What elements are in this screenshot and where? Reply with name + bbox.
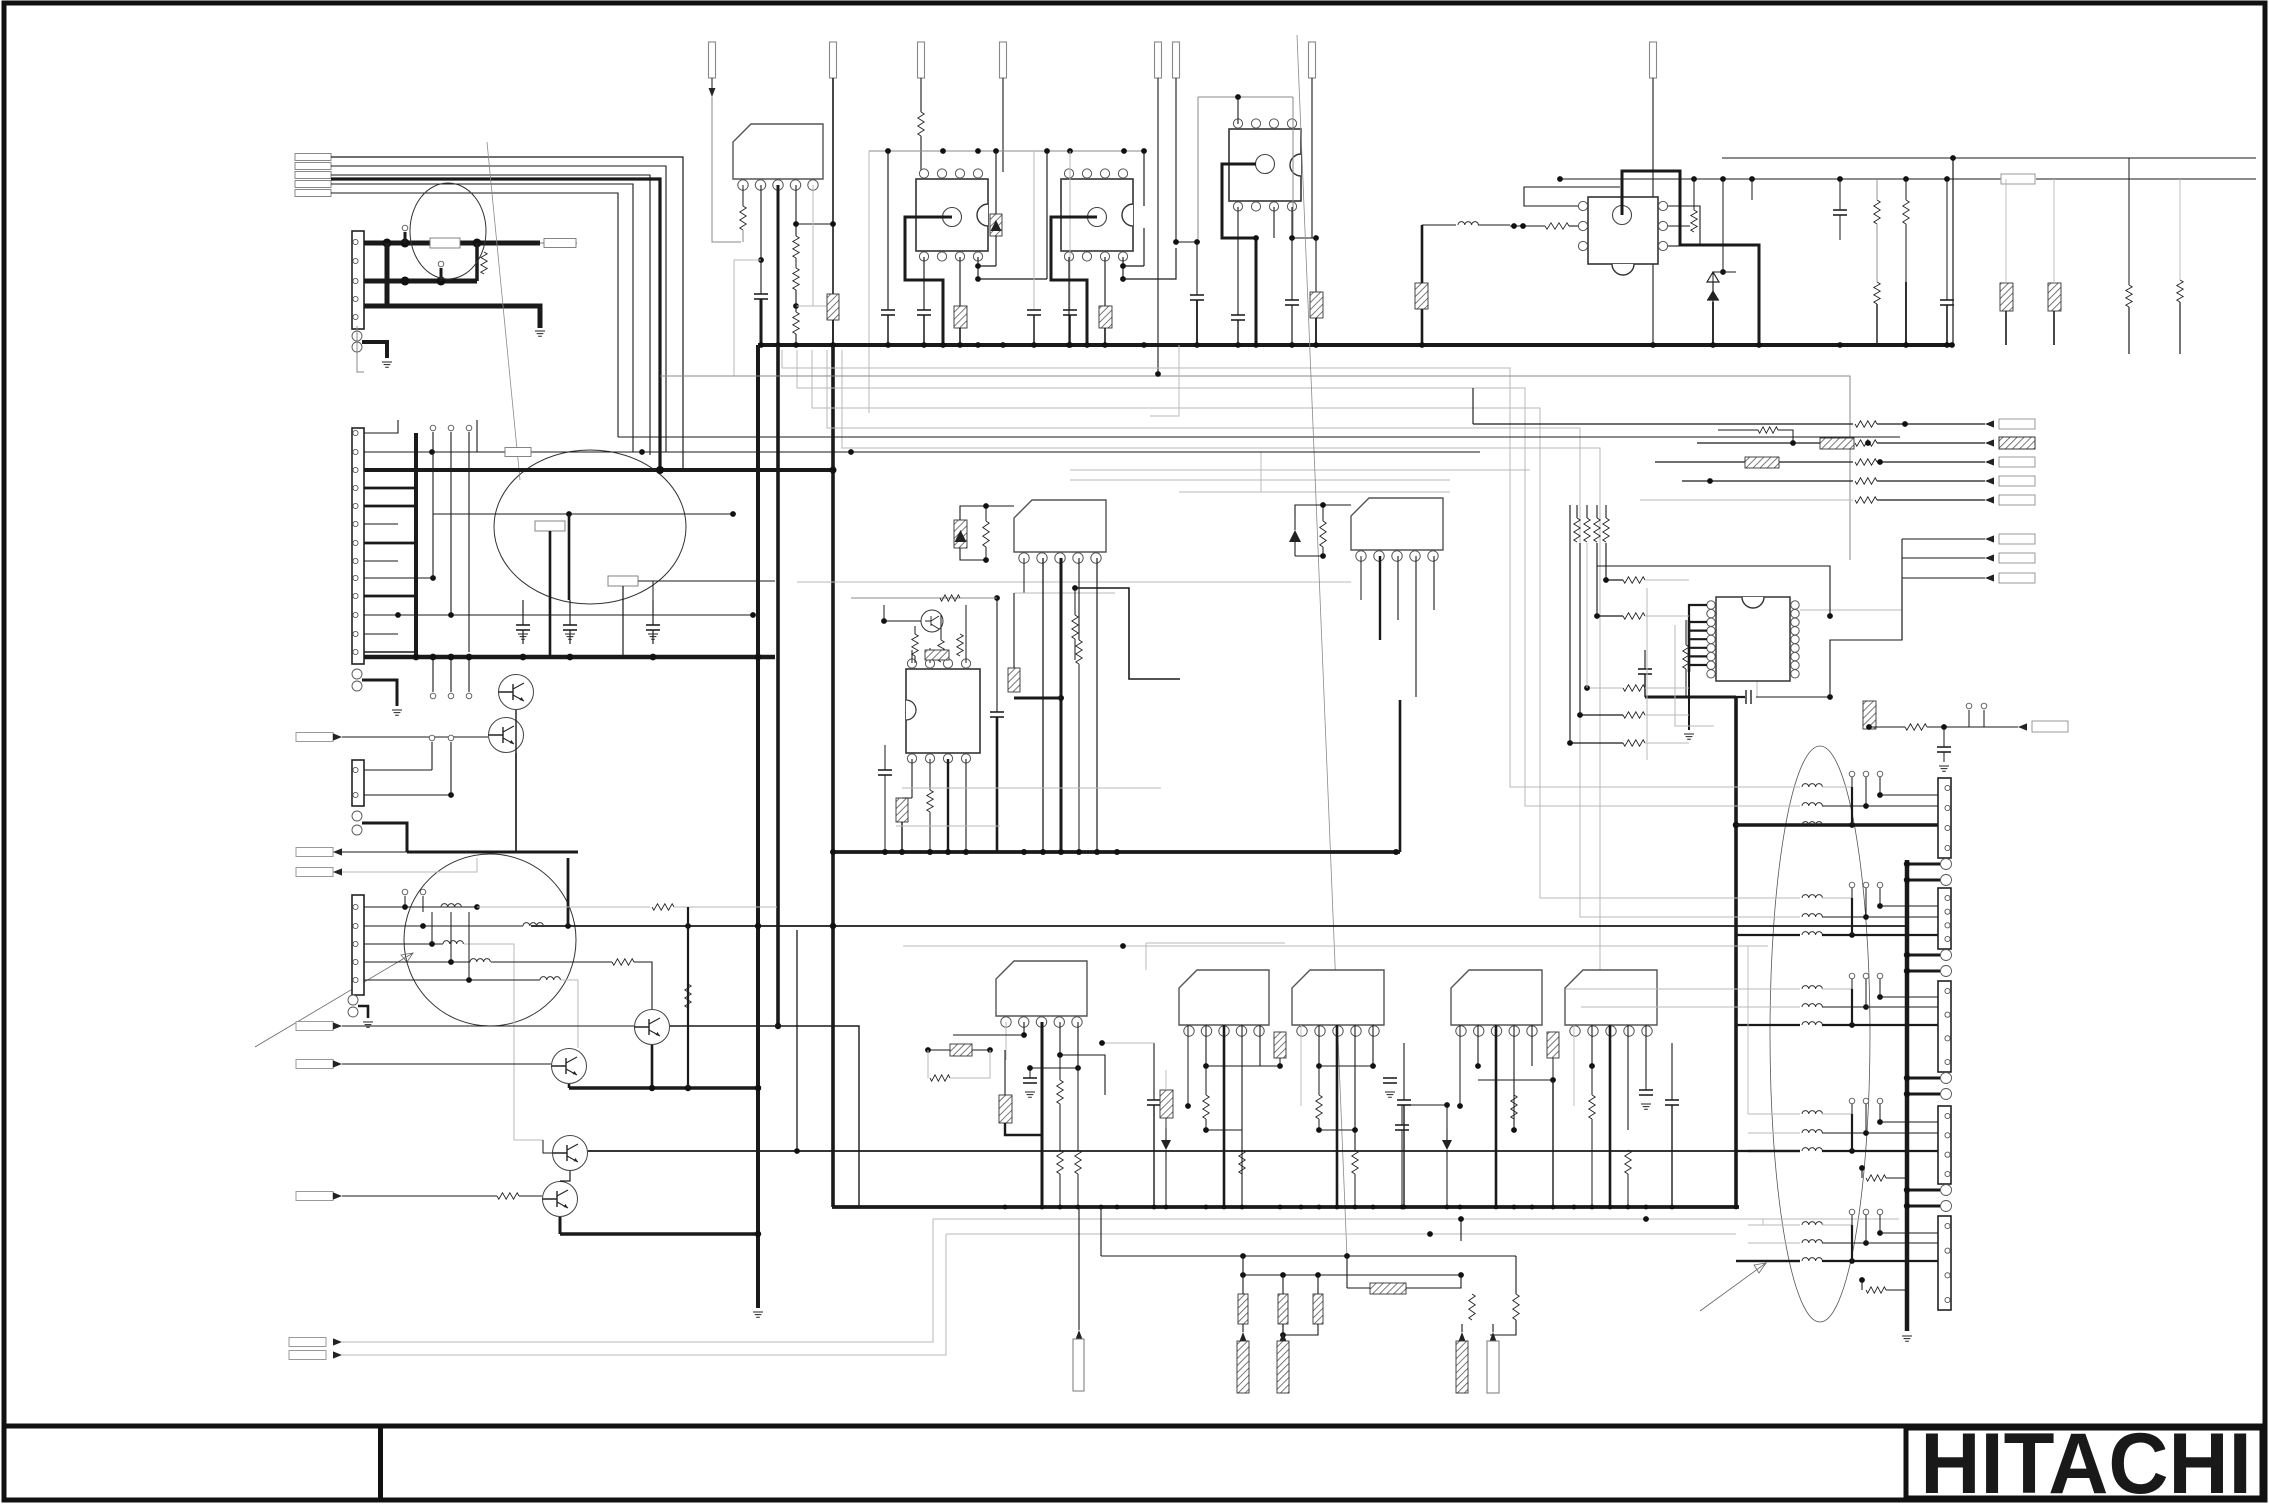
- junction: [882, 849, 888, 855]
- wire 1219 up: [1898, 1203, 1900, 1219]
- junction: [685, 1085, 691, 1091]
- wire: [1205, 1066, 1207, 1095]
- right trunk 1907: [1905, 860, 1910, 1331]
- ellipse highlight E3: [404, 854, 576, 1026]
- ellipse highlight E2: [494, 450, 686, 604]
- wire gray 306: [796, 305, 827, 307]
- wire U2 thick bent: [1051, 217, 1097, 345]
- junction: [1076, 849, 1082, 855]
- wire MB1 p3 thick: [1041, 1022, 1044, 1207]
- stub: [450, 912, 452, 962]
- junction: [1240, 1205, 1245, 1210]
- wire J1b thick: [362, 342, 387, 358]
- wire trunk stub2: [1907, 1205, 1940, 1208]
- arrow: [333, 1192, 342, 1199]
- wire Q4 right row: [670, 1026, 859, 1207]
- wire in1355: [342, 1234, 946, 1355]
- wire: [1839, 215, 1841, 240]
- value box: [430, 238, 460, 248]
- junction: [448, 959, 454, 965]
- junction: [1240, 1272, 1246, 1278]
- wire: [884, 745, 886, 770]
- wire U5 gnd: [1688, 672, 1690, 730]
- wire: [1401, 1105, 1403, 1125]
- junction: [448, 612, 454, 618]
- wire: [929, 759, 931, 790]
- capacitor: [1395, 1124, 1409, 1126]
- wire dn: [1446, 1105, 1448, 1128]
- junction: [1076, 1205, 1081, 1210]
- wire G5 row3 left seg: [1736, 1260, 1800, 1262]
- junction: [975, 342, 981, 348]
- junction: [1903, 176, 1909, 182]
- junction: [473, 239, 482, 248]
- wire thick 697: [1645, 696, 1736, 699]
- resistor: [1874, 200, 1880, 224]
- wire: [996, 598, 998, 712]
- resistor: [740, 206, 746, 230]
- wire pin833 drop: [832, 78, 834, 346]
- wire: [364, 794, 451, 796]
- wire MB4 p5: [1531, 1025, 1533, 1066]
- wire group1 row2: [1581, 805, 1800, 807]
- pin stub: [1877, 973, 1883, 979]
- riser 1400: [1399, 700, 1402, 852]
- wire: [687, 1008, 689, 1088]
- wire MB1 p2: [1023, 1022, 1025, 1035]
- wire: [1605, 505, 1607, 518]
- junction: [1240, 1253, 1246, 1259]
- junction: [1289, 235, 1295, 241]
- wire: [2128, 307, 2130, 354]
- junction: [1650, 342, 1656, 348]
- wire drop 569: [568, 514, 571, 600]
- junction: [1316, 1063, 1322, 1069]
- stub wire: [1879, 888, 1881, 898]
- resistor: [918, 112, 924, 136]
- stub wire: [1851, 777, 1853, 787]
- wire: [1905, 282, 1907, 345]
- diode: [1161, 1140, 1171, 1150]
- wire: [1886, 1289, 1907, 1291]
- junction: [1520, 223, 1526, 229]
- wire 1588 bend: [1597, 566, 1830, 616]
- stub wire: [1879, 1104, 1881, 1114]
- junction: [1044, 148, 1050, 154]
- wire out row: [1655, 461, 1853, 463]
- ground: [1684, 734, 1694, 739]
- wire row1 to conn: [1852, 988, 1938, 990]
- hatched component: [1415, 283, 1428, 309]
- wire G5 res row: [1861, 1280, 1863, 1290]
- resistor: [1513, 1294, 1519, 1320]
- junction: [1066, 342, 1072, 348]
- wire r5 gray: [561, 980, 578, 1048]
- row852 to 568: [516, 851, 578, 853]
- junction: [1589, 1063, 1595, 1069]
- wire J1 row A thick: [364, 241, 540, 246]
- ellipse highlight E4: [1770, 746, 1870, 1322]
- output box: [1999, 573, 2035, 583]
- junction: [927, 849, 933, 855]
- junction: [1837, 176, 1843, 182]
- value box r2: [505, 448, 531, 457]
- wire: [1004, 1050, 1006, 1095]
- IC U5: [1716, 597, 1790, 681]
- trunk x833: [831, 346, 835, 1207]
- wire M2 right net: [1075, 588, 1180, 679]
- junction: [1572, 1205, 1577, 1210]
- wire M2 pin1: [1023, 558, 1025, 593]
- junction: [1235, 94, 1241, 100]
- wire link: [1880, 905, 1938, 907]
- wire row1 to conn: [1852, 897, 1938, 899]
- junction: [1710, 342, 1716, 348]
- wire r2 to conn: [1866, 1006, 1938, 1008]
- arrow up: [1490, 1332, 1497, 1341]
- resistor: [1239, 1150, 1245, 1174]
- junction: [1949, 342, 1955, 348]
- wire: [1552, 1058, 1554, 1080]
- trunk x758: [756, 345, 760, 1234]
- capacitor: [878, 769, 892, 771]
- connector pin stub: [295, 190, 331, 197]
- junction: [1904, 952, 1910, 958]
- wire 279 link2: [1123, 248, 1176, 279]
- wire: [1671, 1043, 1673, 1100]
- junction: [466, 654, 473, 661]
- stub wire low: [432, 660, 434, 692]
- wire: [1074, 588, 1076, 615]
- wire M1 pin1: [742, 185, 744, 206]
- wire row3b: [1822, 1024, 1938, 1026]
- wire 1070 col: [1069, 151, 1071, 310]
- power module M3: [1351, 498, 1443, 550]
- junction: [1877, 1119, 1883, 1125]
- junction: [1877, 903, 1883, 909]
- wire U3 thick bent: [1222, 164, 1256, 345]
- junction: [1040, 849, 1046, 855]
- wire MB2 p5: [1259, 1025, 1261, 1066]
- wire: [1822, 1224, 1852, 1226]
- wire row1068: [1030, 1067, 1078, 1069]
- wire: [674, 906, 777, 908]
- junction: [1827, 694, 1833, 700]
- resistor: [1623, 613, 1645, 619]
- wire drop 1752: [1751, 179, 1753, 200]
- output box: [1999, 419, 2035, 429]
- wire row 943: [1146, 942, 1285, 944]
- junction: [1040, 1205, 1045, 1210]
- coil: [1802, 932, 1822, 935]
- junction: [1849, 1148, 1855, 1154]
- wire MB3 p5: [1372, 1025, 1374, 1066]
- wire 1880 link: [1879, 1104, 1881, 1122]
- junction: [940, 342, 946, 348]
- junction: [885, 342, 891, 348]
- input box 872: [296, 868, 333, 877]
- connector top pin: [918, 42, 925, 78]
- junction: [430, 575, 436, 581]
- wire U5 stub: [1689, 621, 1707, 623]
- coil: [1802, 1004, 1822, 1007]
- resistor: [793, 312, 799, 334]
- footer top rule: [2, 1424, 2267, 1429]
- wire row1130b: [1319, 1129, 1355, 1131]
- wire: [1322, 547, 1324, 556]
- wire: [1205, 1119, 1207, 1130]
- hatched component: [827, 294, 839, 320]
- wire M1 pin3 thick: [777, 185, 780, 345]
- hatched component: [1008, 668, 1020, 692]
- wire input 1064: [342, 1063, 551, 1065]
- wire gray bracket U1: [868, 151, 870, 413]
- wire 1880 link: [1879, 888, 1881, 906]
- resistor: [1057, 1150, 1063, 1174]
- junction: [925, 1047, 931, 1053]
- wire Q7 down thick: [559, 1217, 562, 1234]
- junction: [1445, 1205, 1450, 1210]
- wire 1953 riser: [1952, 158, 1954, 345]
- wire Q3 col: [940, 615, 942, 640]
- stub wire: [1865, 1104, 1867, 1133]
- transistor Q7: [543, 1182, 578, 1217]
- junction: [1235, 342, 1241, 348]
- stub wire low: [450, 660, 452, 692]
- wire: [1282, 1324, 1284, 1332]
- junction: [1904, 968, 1910, 974]
- power module MB1: [996, 961, 1087, 1016]
- resistor: [1469, 1294, 1475, 1320]
- stub drop a: [1851, 989, 1853, 1025]
- wire MB5 p4: [1627, 1025, 1629, 1130]
- junction: [1863, 914, 1869, 920]
- wire: [965, 759, 967, 852]
- wire 797 riser: [796, 930, 798, 1151]
- arrow up: [1076, 1330, 1083, 1339]
- junction: [402, 904, 408, 910]
- wire U5 feeder col: [1579, 543, 1581, 715]
- wire U5 feeder col: [1596, 543, 1598, 616]
- hatched component: [1274, 1032, 1286, 1058]
- hatched component: [1863, 701, 1876, 729]
- arrow left2: [333, 868, 342, 875]
- capacitor: [1231, 314, 1245, 316]
- junction: [413, 654, 420, 661]
- stub wire: [1879, 979, 1881, 989]
- wire: [1165, 1070, 1167, 1090]
- wire 279 link: [978, 278, 1047, 280]
- bus 657: [364, 655, 775, 660]
- wire: [1927, 726, 2018, 728]
- wire right drop 2180: [2179, 179, 2181, 280]
- junction: [395, 612, 401, 618]
- value box: [535, 521, 565, 531]
- wire MB3 p1: [1300, 1025, 1302, 1106]
- wire: [902, 797, 912, 799]
- wire gray staircase 3: [812, 350, 1800, 898]
- wire: [1013, 593, 1015, 668]
- wire gray staircase 2: [797, 350, 1800, 806]
- wire row 598 gray: [851, 597, 997, 599]
- resistor: [1623, 712, 1645, 718]
- stub: [431, 742, 433, 770]
- junction: [793, 221, 799, 227]
- power module M1: [733, 124, 823, 179]
- wire gray staircase 1: [782, 350, 1800, 787]
- stub wire: [1879, 1215, 1881, 1225]
- wire row3b: [1822, 1260, 1938, 1262]
- wire MB5 p3: [1609, 1025, 1612, 1207]
- wire gray 470b: [1070, 469, 1530, 471]
- junction: [1865, 440, 1871, 446]
- junction: [994, 595, 1000, 601]
- capacitor: [1147, 1099, 1161, 1101]
- coil: [1802, 895, 1822, 898]
- wire: [1165, 1118, 1167, 1128]
- resistor: [938, 640, 944, 662]
- wire: [549, 531, 552, 657]
- ground bus: [758, 343, 1952, 347]
- junction: [987, 1047, 993, 1053]
- wire MB1 p5: [1077, 1022, 1079, 1068]
- junction: [1072, 585, 1078, 591]
- junction: [1194, 239, 1200, 245]
- wire row852 left: [407, 851, 578, 854]
- connector top pin: [1155, 42, 1162, 78]
- connector CN3: [1938, 981, 1951, 1072]
- wire U5 row: [1570, 742, 1623, 744]
- connector top pin: [1650, 42, 1657, 78]
- pin stub bottom: [448, 693, 454, 699]
- wire U5 row: [1606, 579, 1623, 581]
- wire J2 r2 long: [364, 451, 1480, 453]
- wire: [1059, 1104, 1061, 1150]
- wire link bars: [1283, 1324, 1318, 1335]
- wire subckt row1275: [1243, 1274, 1463, 1276]
- stub wire: [432, 432, 434, 578]
- wire link: [1880, 794, 1938, 796]
- connector J1b pin2: [352, 342, 362, 352]
- wire MB4 p4: [1513, 1025, 1515, 1130]
- wire U5 row: [1597, 615, 1623, 617]
- wire M3 pin2 thick: [1379, 556, 1381, 640]
- cap gnd: [1023, 1078, 1037, 1097]
- coil: [523, 923, 543, 926]
- wire M2 thick 698: [1014, 697, 1061, 700]
- junction: [1904, 1091, 1910, 1097]
- resistor: [2126, 285, 2132, 307]
- wire: [1645, 742, 1689, 744]
- resistor: [1603, 518, 1609, 542]
- wire: [1291, 305, 1293, 345]
- junction: [685, 923, 691, 929]
- wire row3b: [1822, 934, 1938, 936]
- wire trunk stub2: [1907, 879, 1940, 882]
- wire r4 end: [634, 962, 652, 1009]
- junction: [1877, 1230, 1883, 1236]
- wire: [1822, 916, 1866, 918]
- junction: [1164, 1205, 1169, 1210]
- junction: [1733, 822, 1739, 828]
- junction: [1849, 822, 1855, 828]
- pin stub: [1849, 882, 1855, 888]
- wire U5 cap row: [1689, 696, 1745, 698]
- wire harness 3: [331, 175, 650, 455]
- wire pin1653 lower: [1652, 254, 1654, 278]
- junction: [755, 1231, 761, 1237]
- junction: [1877, 792, 1883, 798]
- resistor: [1545, 223, 1569, 229]
- junction: [1577, 712, 1583, 718]
- wire diode link: [928, 1049, 950, 1051]
- stub wire: [1851, 1215, 1853, 1225]
- stub drop a: [1851, 1225, 1853, 1261]
- power module MB4: [1451, 970, 1542, 1025]
- wire: [1645, 714, 1689, 716]
- big pin2: [1941, 1089, 1952, 1100]
- junction: [830, 849, 836, 855]
- wire J3 r4: [364, 961, 470, 963]
- wire 727 row: [1869, 726, 1905, 728]
- HITACHI logo box: [1906, 1428, 2262, 1498]
- resistor: [1320, 521, 1326, 547]
- connector top pin: [1173, 42, 1180, 78]
- junction: [1278, 1205, 1283, 1210]
- wire MB4 p1: [1459, 1025, 1461, 1106]
- wire gray staircase 4: [827, 350, 1800, 917]
- wire group3 row1: [1566, 988, 1800, 990]
- wire diode M3: [1294, 516, 1296, 556]
- wire: [1078, 664, 1080, 852]
- resistor: [1855, 440, 1877, 446]
- junction: [1317, 1205, 1322, 1210]
- junction: [429, 449, 435, 455]
- wire J2c thick: [362, 823, 407, 852]
- resistor: [1072, 615, 1078, 639]
- junction: [474, 904, 480, 910]
- capacitor: [1190, 294, 1204, 296]
- junction: [1335, 1205, 1340, 1210]
- wire MB2 aux: [1102, 1042, 1154, 1044]
- wire: [1822, 805, 1866, 807]
- junction: [1173, 239, 1179, 245]
- wire thick stub: [404, 232, 407, 243]
- input box 1064: [296, 1060, 333, 1069]
- resistor: [1866, 1175, 1886, 1181]
- wire: [1403, 1043, 1405, 1100]
- wire thick stub2: [440, 268, 443, 281]
- wire: [1403, 1105, 1405, 1207]
- junction: [1393, 849, 1399, 855]
- wire: [1756, 669, 1758, 697]
- wire: [1685, 669, 1687, 697]
- pin stub bottom: [466, 693, 472, 699]
- wire U5 gray frame2: [1675, 625, 1714, 726]
- resistor: [793, 268, 799, 290]
- junction: [1057, 1052, 1063, 1058]
- pin stub: [1877, 771, 1883, 777]
- arrow: [333, 1351, 342, 1358]
- wire U5 top bend: [1689, 605, 1707, 620]
- wire J2 r8: [364, 560, 398, 562]
- junction: [1320, 553, 1326, 559]
- hatched component: [954, 306, 967, 328]
- junction: [1603, 577, 1609, 583]
- junction: [1866, 724, 1872, 730]
- wire: [914, 656, 916, 663]
- junction: [1626, 1205, 1631, 1210]
